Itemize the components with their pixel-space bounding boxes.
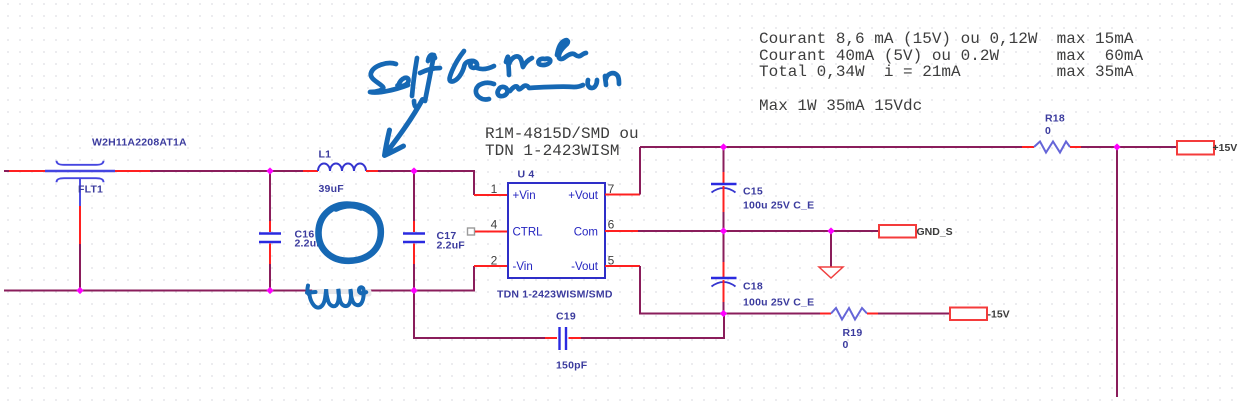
annotation arrow (385, 100, 423, 156)
junction node C16 top (266, 167, 273, 174)
wire C19 to node (581, 314, 724, 339)
svg-text:1: 1 (491, 182, 498, 196)
svg-text:R19: R19 (843, 327, 863, 339)
svg-text:-15V: -15V (988, 309, 1010, 321)
filter FLT1 body (57, 161, 104, 206)
pin FLT1 ground pin (79, 206, 81, 244)
wire pin5 down and right to node (640, 266, 724, 314)
annotation handwritten Commun (476, 73, 619, 99)
svg-text:L1: L1 (319, 149, 332, 161)
svg-text:100u 25V C_E: 100u 25V C_E (743, 297, 814, 309)
wire vertical from +15V rail down (1116, 147, 1118, 397)
wire R18 to +15V port (1081, 146, 1177, 148)
svg-text:CTRL: CTRL (513, 227, 544, 239)
inductor L1 coil (318, 164, 366, 171)
ground symbol (819, 267, 843, 278)
capacitor C19 (560, 327, 567, 350)
svg-text:GND_S: GND_S (917, 226, 953, 238)
junction node at FLT1 bottom (76, 287, 83, 294)
svg-text:C18: C18 (743, 281, 763, 293)
no-connect square pin4 (468, 228, 475, 235)
annotation gray band over bottom rail (314, 292, 369, 295)
svg-text:W2H11A2208AT1A: W2H11A2208AT1A (92, 137, 187, 149)
junction node C18 bottom (720, 310, 727, 317)
annotation handwritten Mode (506, 40, 586, 75)
svg-text:0: 0 (843, 339, 849, 351)
svg-text:4: 4 (491, 218, 498, 232)
svg-text:39uF: 39uF (319, 183, 345, 195)
svg-text:FLT1: FLT1 (78, 184, 103, 196)
wire Com line (638, 230, 879, 232)
capacitor C16 (259, 172, 323, 290)
svg-text:C19: C19 (556, 311, 576, 323)
wire top rail left segment (4, 170, 9, 172)
svg-text:+15V: +15V (1213, 142, 1238, 154)
svg-text:+Vin: +Vin (513, 190, 536, 202)
wire top rail from FLT1 to node C16 (150, 170, 303, 172)
port -15V (950, 308, 987, 321)
annotation handwritten de (450, 51, 494, 82)
svg-text:U 4: U 4 (518, 169, 535, 181)
pin U4 pin6 (605, 230, 638, 232)
wire L1 to node C17 and U4 corner (378, 171, 474, 195)
pin U4 pin7 (605, 194, 640, 196)
junction node Com (720, 227, 727, 234)
capacitor C15 (711, 148, 814, 231)
wire +15V rail (640, 146, 1022, 148)
svg-text:C15: C15 (743, 186, 763, 198)
capacitor C18 (711, 232, 814, 314)
wire C19 branch (414, 290, 545, 338)
junction node C17 top (410, 167, 417, 174)
svg-text:0: 0 (1045, 125, 1051, 137)
pin L1 left pin (303, 170, 318, 172)
port +15V (1177, 141, 1214, 155)
svg-text:2.2uF: 2.2uF (437, 240, 466, 252)
pin U4 pin1 (474, 194, 508, 196)
pin FLT1 right pin (115, 170, 150, 172)
wire GND drop (830, 231, 832, 267)
pin R19 left (820, 313, 831, 315)
junction node +15V rail (1113, 143, 1120, 150)
annotation handwritten circle (318, 205, 380, 261)
svg-text:2: 2 (491, 254, 498, 268)
resistor R19 (831, 308, 867, 320)
pin U4 pin4 (475, 231, 508, 233)
port GND_S (879, 225, 916, 238)
pin R18 left (1022, 146, 1034, 148)
pin R19 right (867, 313, 878, 315)
filter FLT1 feed-through bar (45, 170, 115, 172)
wire bottom rail (4, 266, 474, 291)
op-amp U4 box (508, 183, 605, 278)
wire pin7 to +15V rail (639, 147, 641, 195)
pin L1 right pin (366, 170, 378, 172)
pin U4 pin2 (474, 265, 508, 267)
wire FLT1 to bottom rail (79, 244, 81, 291)
annotation handwritten loops (307, 286, 366, 308)
pin C19 left (545, 337, 557, 339)
junction node C17 bottom (410, 287, 417, 294)
svg-text:150pF: 150pF (556, 360, 588, 372)
svg-text:TDN 1-2423WISM/SMD: TDN 1-2423WISM/SMD (497, 289, 613, 301)
svg-text:100u 25V C_E: 100u 25V C_E (743, 200, 814, 212)
note current budget text block (759, 31, 1143, 115)
note converter part numbers (485, 126, 639, 159)
pin R18 right (1070, 146, 1081, 148)
junction node C16 bottom (266, 287, 273, 294)
wire R19 to -15V port (878, 313, 950, 315)
capacitor C17 (403, 172, 465, 290)
resistor R18 (1034, 142, 1070, 153)
svg-text:6: 6 (608, 218, 615, 232)
annotation handwritten Self (370, 55, 440, 108)
pin C19 right (569, 337, 582, 339)
svg-text:Com: Com (574, 227, 598, 239)
wire node to R19 (724, 313, 820, 315)
svg-text:-Vout: -Vout (571, 261, 599, 273)
pin U4 pin5 (605, 265, 640, 267)
svg-text:-Vin: -Vin (513, 261, 533, 273)
junction node C15 top (720, 143, 727, 150)
junction node GND drop (827, 227, 834, 234)
pin FLT1 left pin (9, 170, 45, 172)
svg-text:+Vout: +Vout (568, 190, 599, 202)
